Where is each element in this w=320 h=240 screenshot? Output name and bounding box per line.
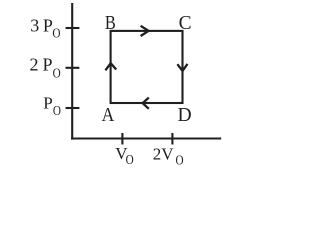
arrow B to C (rightward) (141, 26, 149, 36)
svg-text:O: O (53, 65, 61, 80)
arrow A to B (upward) (105, 63, 116, 70)
cycle square ABCD (111, 31, 183, 103)
tick 2P0 (66, 67, 80, 69)
svg-text:B: B (105, 11, 116, 33)
y-axis (pressure axis) (71, 3, 73, 140)
svg-text:D: D (178, 104, 192, 126)
tick 2V0 (171, 133, 173, 145)
tick 3P0 (66, 27, 80, 29)
svg-text:O: O (53, 103, 61, 118)
svg-text:O: O (126, 152, 134, 167)
svg-text:2V: 2V (153, 144, 175, 163)
svg-text:O: O (52, 25, 60, 40)
arrow D to A (leftward) (143, 98, 149, 109)
arrow C to D (downward) (177, 64, 187, 71)
tick V0 (121, 133, 123, 145)
svg-text:O: O (176, 152, 184, 167)
svg-text:C: C (179, 12, 192, 34)
svg-text:P: P (43, 94, 52, 113)
x-axis (volume axis) (71, 137, 221, 139)
tick P0 (66, 107, 80, 109)
svg-text:A: A (102, 104, 115, 126)
